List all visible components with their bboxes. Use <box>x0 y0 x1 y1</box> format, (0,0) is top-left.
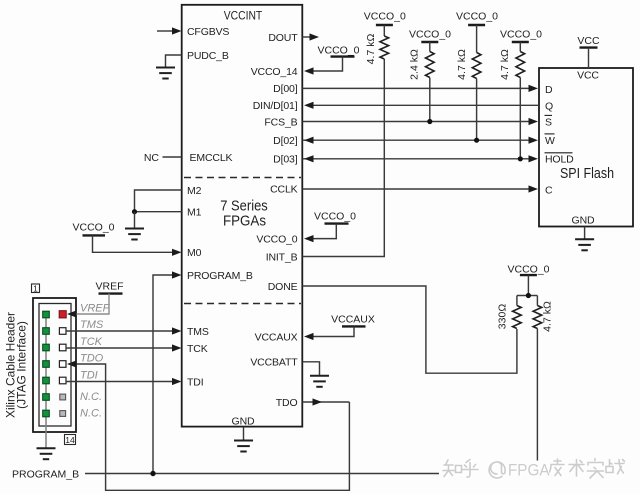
svg-text:D: D <box>545 84 553 96</box>
svg-text:M2: M2 <box>187 185 202 197</box>
svg-text:VCCBATT: VCCBATT <box>250 357 298 369</box>
node junction at resistor tee <box>526 293 531 298</box>
JTAG pin TCK (open) <box>59 344 66 351</box>
power symbol VCCO_0 pull-up column 3 <box>456 10 498 52</box>
ground below JTAG header <box>37 448 56 459</box>
svg-text:VCC: VCC <box>577 69 599 81</box>
wire column 2 down to S line <box>429 78 431 122</box>
wire M2 <box>135 190 182 212</box>
wire column 4 down to HOLD line <box>519 78 521 159</box>
svg-text:VCCAUX: VCCAUX <box>255 331 298 343</box>
FPGA right pin labels <box>250 32 298 409</box>
wire PUDC_B to ground <box>156 55 182 79</box>
FPGA block U1: 7 Series FPGAs <box>182 5 303 427</box>
SPI Flash block U2 <box>539 68 633 227</box>
svg-text:330Ω: 330Ω <box>497 304 509 330</box>
FPGA internal dashed divider 2 <box>184 303 301 305</box>
svg-text:PROGRAM_B: PROGRAM_B <box>187 270 253 282</box>
svg-text:VCCO_0: VCCO_0 <box>314 210 356 222</box>
wire CCLK to C <box>303 185 539 192</box>
wire D[02] to W <box>303 137 539 144</box>
svg-text:D[02]: D[02] <box>273 135 298 147</box>
svg-text:D[03]: D[03] <box>273 154 298 166</box>
JTAG pin 2 VREF (red) <box>59 311 66 318</box>
svg-text:PUDC_B: PUDC_B <box>187 50 229 62</box>
svg-text:N.C.: N.C. <box>80 408 102 420</box>
wire VCCBATT to ground <box>303 362 330 387</box>
svg-text:VCCO_0: VCCO_0 <box>72 222 114 234</box>
power symbol VCCO_0 for VCCO_14 <box>304 44 360 74</box>
power symbol VCC above SPI Flash <box>577 35 600 68</box>
wire PROGRAM_B pin from bottom net <box>153 271 182 473</box>
svg-text:N.C.: N.C. <box>80 391 102 403</box>
wire D[03] to HOLD <box>303 155 539 162</box>
JTAG pin NC lower (gray) <box>60 411 66 417</box>
header rotated label Xilinx Cable Header (JTAG Interface) <box>4 312 29 418</box>
svg-text:TCK: TCK <box>80 336 103 348</box>
svg-text:EMCCLK: EMCCLK <box>190 152 233 164</box>
svg-text:HOLD: HOLD <box>545 154 574 166</box>
JTAG pin NC (gray) <box>60 394 66 400</box>
wire column 1 down to INIT_B <box>303 59 385 257</box>
svg-text:NC: NC <box>144 152 160 164</box>
svg-text:S: S <box>545 116 552 128</box>
svg-text:2.4 kΩ: 2.4 kΩ <box>409 49 421 80</box>
svg-text:INIT_B: INIT_B <box>266 251 298 263</box>
svg-text:FCS_B: FCS_B <box>264 116 297 128</box>
resistor 330 Ohm (DONE pull-up) <box>497 296 522 330</box>
svg-text:PROGRAM_B: PROGRAM_B <box>12 468 79 480</box>
svg-text:CCLK: CCLK <box>270 184 298 196</box>
resistor 4.7 kOhm (W pull-up) <box>456 49 481 80</box>
node junction column2/S <box>427 119 432 124</box>
power symbol VREF <box>67 281 124 318</box>
FPGA internal dashed divider 1 <box>184 177 301 179</box>
SPI Flash left pin labels D Q S W HOLD C <box>545 84 575 197</box>
wire column 3 down to W line <box>476 79 478 141</box>
power symbol VCCO_0 pull-up column 1 <box>364 10 406 36</box>
wire tee to both resistors <box>517 295 538 297</box>
svg-text:DIN/D[01]: DIN/D[01] <box>253 100 298 112</box>
ground below SPI Flash GND <box>575 227 594 251</box>
ground M1/M2 <box>125 212 144 240</box>
resistor 4.7 kOhm (HOLD pull-up) <box>499 49 525 80</box>
wire TMS to FPGA <box>66 327 182 334</box>
svg-text:(JTAG Interface): (JTAG Interface) <box>15 321 29 409</box>
svg-text:4.7 kΩ: 4.7 kΩ <box>365 34 377 65</box>
FPGA label 7 Series FPGAs <box>220 199 268 230</box>
svg-text:4.7 kΩ: 4.7 kΩ <box>456 49 468 80</box>
svg-text:M0: M0 <box>187 247 202 259</box>
svg-text:FPGAs: FPGAs <box>223 213 266 229</box>
power symbol VCCO_0 for DONE pull-ups <box>507 264 549 296</box>
svg-text:DONE: DONE <box>268 281 298 293</box>
JTAG pin 14 marker box <box>65 435 76 446</box>
JTAG signal labels (italic) <box>80 302 111 419</box>
FPGA left pin labels <box>187 26 253 389</box>
power symbol VCCO_0 pull-up column 4 <box>500 29 542 52</box>
svg-text:4.7 kΩ: 4.7 kΩ <box>499 49 511 80</box>
JTAG pin 1 marker box <box>32 283 40 293</box>
wire PROGRAM_B pull-up to bottom net <box>536 329 538 474</box>
wire TCK to FPGA <box>66 344 182 351</box>
svg-text:DOUT: DOUT <box>268 32 298 44</box>
power symbol VCCO_0 for M0 <box>72 222 181 256</box>
JTAG header inner box <box>39 304 71 427</box>
svg-text:TMS: TMS <box>80 319 104 331</box>
svg-text:VCCO_0: VCCO_0 <box>456 10 498 22</box>
svg-text:TDI: TDI <box>187 376 203 388</box>
wire TDI to FPGA <box>66 378 182 385</box>
svg-text:TCK: TCK <box>187 343 208 355</box>
svg-text:TDI: TDI <box>80 369 98 381</box>
svg-text:D[00]: D[00] <box>273 83 298 95</box>
svg-text:TMS: TMS <box>187 326 209 338</box>
JTAG pin TDI (open) <box>59 377 66 384</box>
wire DOUT stub with arrow <box>303 33 320 40</box>
wire CFGBVS stub with arrow <box>157 27 182 34</box>
wire Q to DIN/D[01] <box>304 102 539 109</box>
JTAG pin TDO (open) <box>59 361 66 368</box>
svg-text:14: 14 <box>65 435 75 445</box>
wire M1 <box>135 211 182 213</box>
svg-text:Q: Q <box>545 100 553 112</box>
power symbol VCCO_0 pull-up column 2 <box>409 29 451 52</box>
wire FCS_B to S <box>303 118 539 125</box>
svg-text:C: C <box>545 184 553 196</box>
svg-text:GND: GND <box>572 214 595 226</box>
svg-text:TDO: TDO <box>276 397 298 409</box>
wire NC to EMCCLK <box>163 156 182 158</box>
svg-text:4.7 kΩ: 4.7 kΩ <box>542 301 554 332</box>
node junction PROGRAM_B <box>150 471 155 476</box>
JTAG header GND pins (left column, green) <box>43 311 50 417</box>
svg-text:W: W <box>545 135 555 147</box>
power symbol VCCAUX <box>304 314 375 341</box>
resistor 4.7 kOhm (DIN pull-up) <box>365 34 389 65</box>
svg-text:7 Series: 7 Series <box>220 199 268 215</box>
power symbol VCCO_0 for VCCO_0 pin <box>304 210 356 242</box>
svg-text:VCCO_0: VCCO_0 <box>507 264 549 276</box>
JTAG pin TMS (open) <box>59 328 66 335</box>
svg-text:SPI Flash: SPI Flash <box>560 166 614 182</box>
svg-text:VCCAUX: VCCAUX <box>331 314 375 326</box>
watermark 知乎 @FPGA技术实战 <box>439 459 627 483</box>
svg-text:VREF: VREF <box>80 302 111 314</box>
svg-text:TDO: TDO <box>80 353 104 365</box>
JTAG header outer box <box>33 298 76 432</box>
ground below FPGA GND <box>234 427 253 452</box>
resistor 2.4 kOhm (S pull-up) <box>409 49 435 80</box>
svg-text:FPGA: FPGA <box>508 461 550 480</box>
svg-text:1: 1 <box>33 283 38 293</box>
svg-text:VCCO_14: VCCO_14 <box>251 66 298 78</box>
resistor 4.7 kOhm (PROGRAM_B pull-up) <box>533 296 553 332</box>
svg-text:VCCO_0: VCCO_0 <box>256 233 297 245</box>
svg-text:VCCO_0: VCCO_0 <box>317 44 359 56</box>
svg-text:VCCINT: VCCINT <box>224 8 263 22</box>
wire PROGRAM_B bottom net <box>85 473 537 475</box>
svg-text:VCCO_0: VCCO_0 <box>500 29 542 41</box>
node junction M1/M2 <box>132 209 137 214</box>
svg-text:M1: M1 <box>187 207 202 219</box>
JTAG ground bus line <box>45 315 47 448</box>
svg-text:CFGBVS: CFGBVS <box>187 26 229 38</box>
node junction column3/W <box>474 138 479 143</box>
svg-text:GND: GND <box>232 416 255 428</box>
wire TDO from FPGA to bottom route <box>67 360 349 490</box>
wire D[00] to D <box>303 85 539 92</box>
wire DONE net <box>303 286 517 373</box>
svg-text:VCCO_0: VCCO_0 <box>364 10 406 22</box>
svg-text:VCC: VCC <box>577 35 600 47</box>
svg-text:VCCO_0: VCCO_0 <box>409 29 451 41</box>
svg-text:VREF: VREF <box>95 281 123 293</box>
node junction column4/HOLD <box>518 156 523 161</box>
